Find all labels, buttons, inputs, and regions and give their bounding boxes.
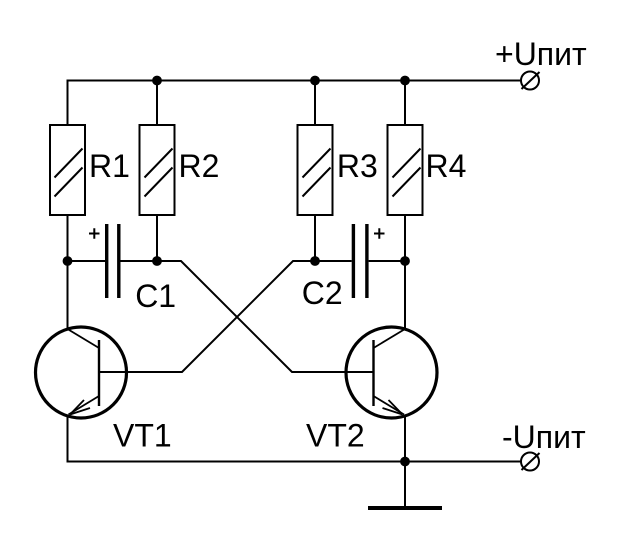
svg-text:R1: R1 — [89, 148, 130, 184]
svg-text:VT1: VT1 — [113, 418, 172, 454]
svg-text:+Uпит: +Uпит — [495, 36, 587, 72]
svg-text:C1: C1 — [135, 278, 176, 314]
svg-text:R2: R2 — [179, 148, 220, 184]
svg-text:C2: C2 — [302, 275, 343, 311]
svg-text:R4: R4 — [426, 148, 467, 184]
svg-text:-Uпит: -Uпит — [502, 419, 586, 455]
svg-text:VT2: VT2 — [306, 418, 365, 454]
svg-text:R3: R3 — [337, 148, 378, 184]
